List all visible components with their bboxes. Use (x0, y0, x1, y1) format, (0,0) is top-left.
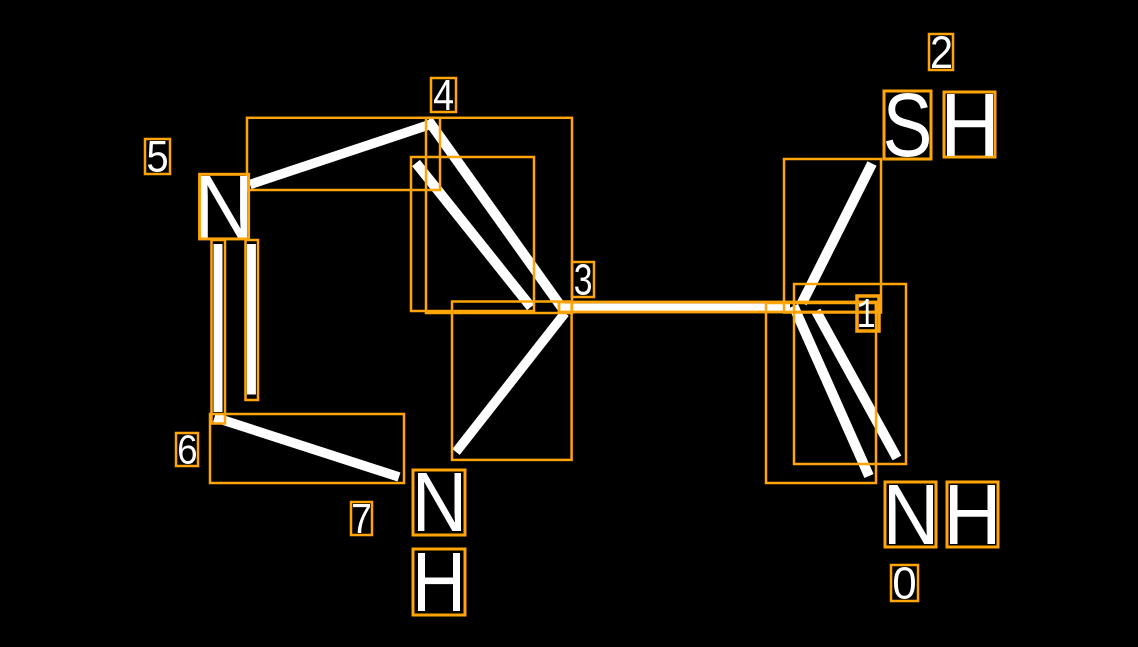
box index 7 (351, 502, 372, 535)
bond N5=C6 left line (214, 244, 223, 412)
bond N5-C4 (250, 123, 435, 185)
box bond C4=C3 inner (411, 157, 534, 311)
box bond C3-C1 (559, 302, 876, 312)
box atom N0 H (947, 482, 998, 547)
box atom S2 H (944, 92, 995, 157)
box bond C1=N0 left (766, 303, 876, 483)
index digit 1 (859, 299, 874, 327)
bond C3-C1 horizontal (561, 303, 791, 311)
bond N5=C6 right line (247, 244, 256, 395)
atom S2 letter S (886, 93, 929, 157)
bond C1=N0 right line (816, 311, 897, 458)
atom N0 letter H (950, 485, 995, 544)
atom N7 letter N (418, 473, 461, 531)
bond C6-N7 (215, 417, 400, 477)
atom N7 letter H (418, 553, 460, 611)
atom N0 letter N (889, 485, 933, 544)
bond C1-S2 (802, 164, 872, 304)
box bond N5=C6 right (246, 240, 259, 400)
box atom N0 N (885, 482, 936, 547)
box bond N5=C6 left (212, 240, 226, 424)
box index 1 (857, 296, 879, 331)
box bond C4=C3 main (426, 118, 572, 313)
box bond C1=N0 right (794, 284, 906, 464)
atom N5 letter N (201, 176, 247, 238)
atom S2 letter H (947, 94, 993, 156)
index digit 3 (575, 264, 591, 295)
box atom S2 S (884, 91, 931, 159)
box atom N5 (200, 174, 249, 239)
box bond C3-N7 (452, 302, 572, 460)
bond C3-N7 (456, 313, 565, 452)
index digit 7 (353, 504, 370, 533)
box bond C1-S2 (784, 159, 881, 313)
bond C1=N0 left line (794, 306, 870, 476)
bond C4=C3 inner line (416, 163, 531, 307)
index digit 0 (894, 567, 915, 599)
box index 2 (929, 34, 953, 70)
box atom N7 H (413, 549, 465, 615)
index digit 2 (932, 36, 951, 68)
box atom N7 N (413, 470, 465, 535)
index digit 5 (148, 141, 167, 172)
box bond N5-C4 (247, 118, 440, 190)
box bond C6-N7 (210, 414, 404, 483)
index digit 6 (179, 435, 196, 464)
box index 0 (891, 565, 918, 601)
bond C4=C3 main line (428, 120, 565, 312)
box index 5 (145, 139, 170, 174)
box index 3 (572, 262, 594, 297)
index digit 4 (434, 80, 453, 110)
box index 6 (176, 433, 198, 466)
box index 4 (431, 78, 456, 112)
